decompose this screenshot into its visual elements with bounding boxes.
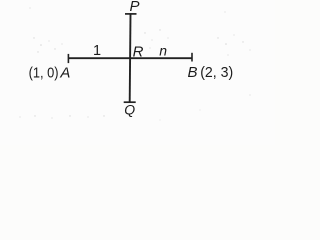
wire horizontal segment AB [68,57,192,59]
svg-text:1: 1 [93,43,101,59]
svg-text:P: P [130,0,140,15]
wire vertical segment PQ [129,14,132,102]
svg-text:B: B [188,64,198,81]
svg-text:R: R [133,43,144,60]
svg-text:(1, 0): (1, 0) [29,64,59,81]
node B endpoint tick [191,53,193,62]
scan noise speckles [19,7,250,120]
svg-text:Q: Q [124,101,135,117]
svg-text:n: n [159,42,167,58]
node Q endpoint tick [124,101,136,103]
svg-text:A: A [59,64,70,81]
svg-text:(2, 3): (2, 3) [200,64,233,81]
node P endpoint tick [125,13,137,15]
node A endpoint tick [67,54,69,63]
